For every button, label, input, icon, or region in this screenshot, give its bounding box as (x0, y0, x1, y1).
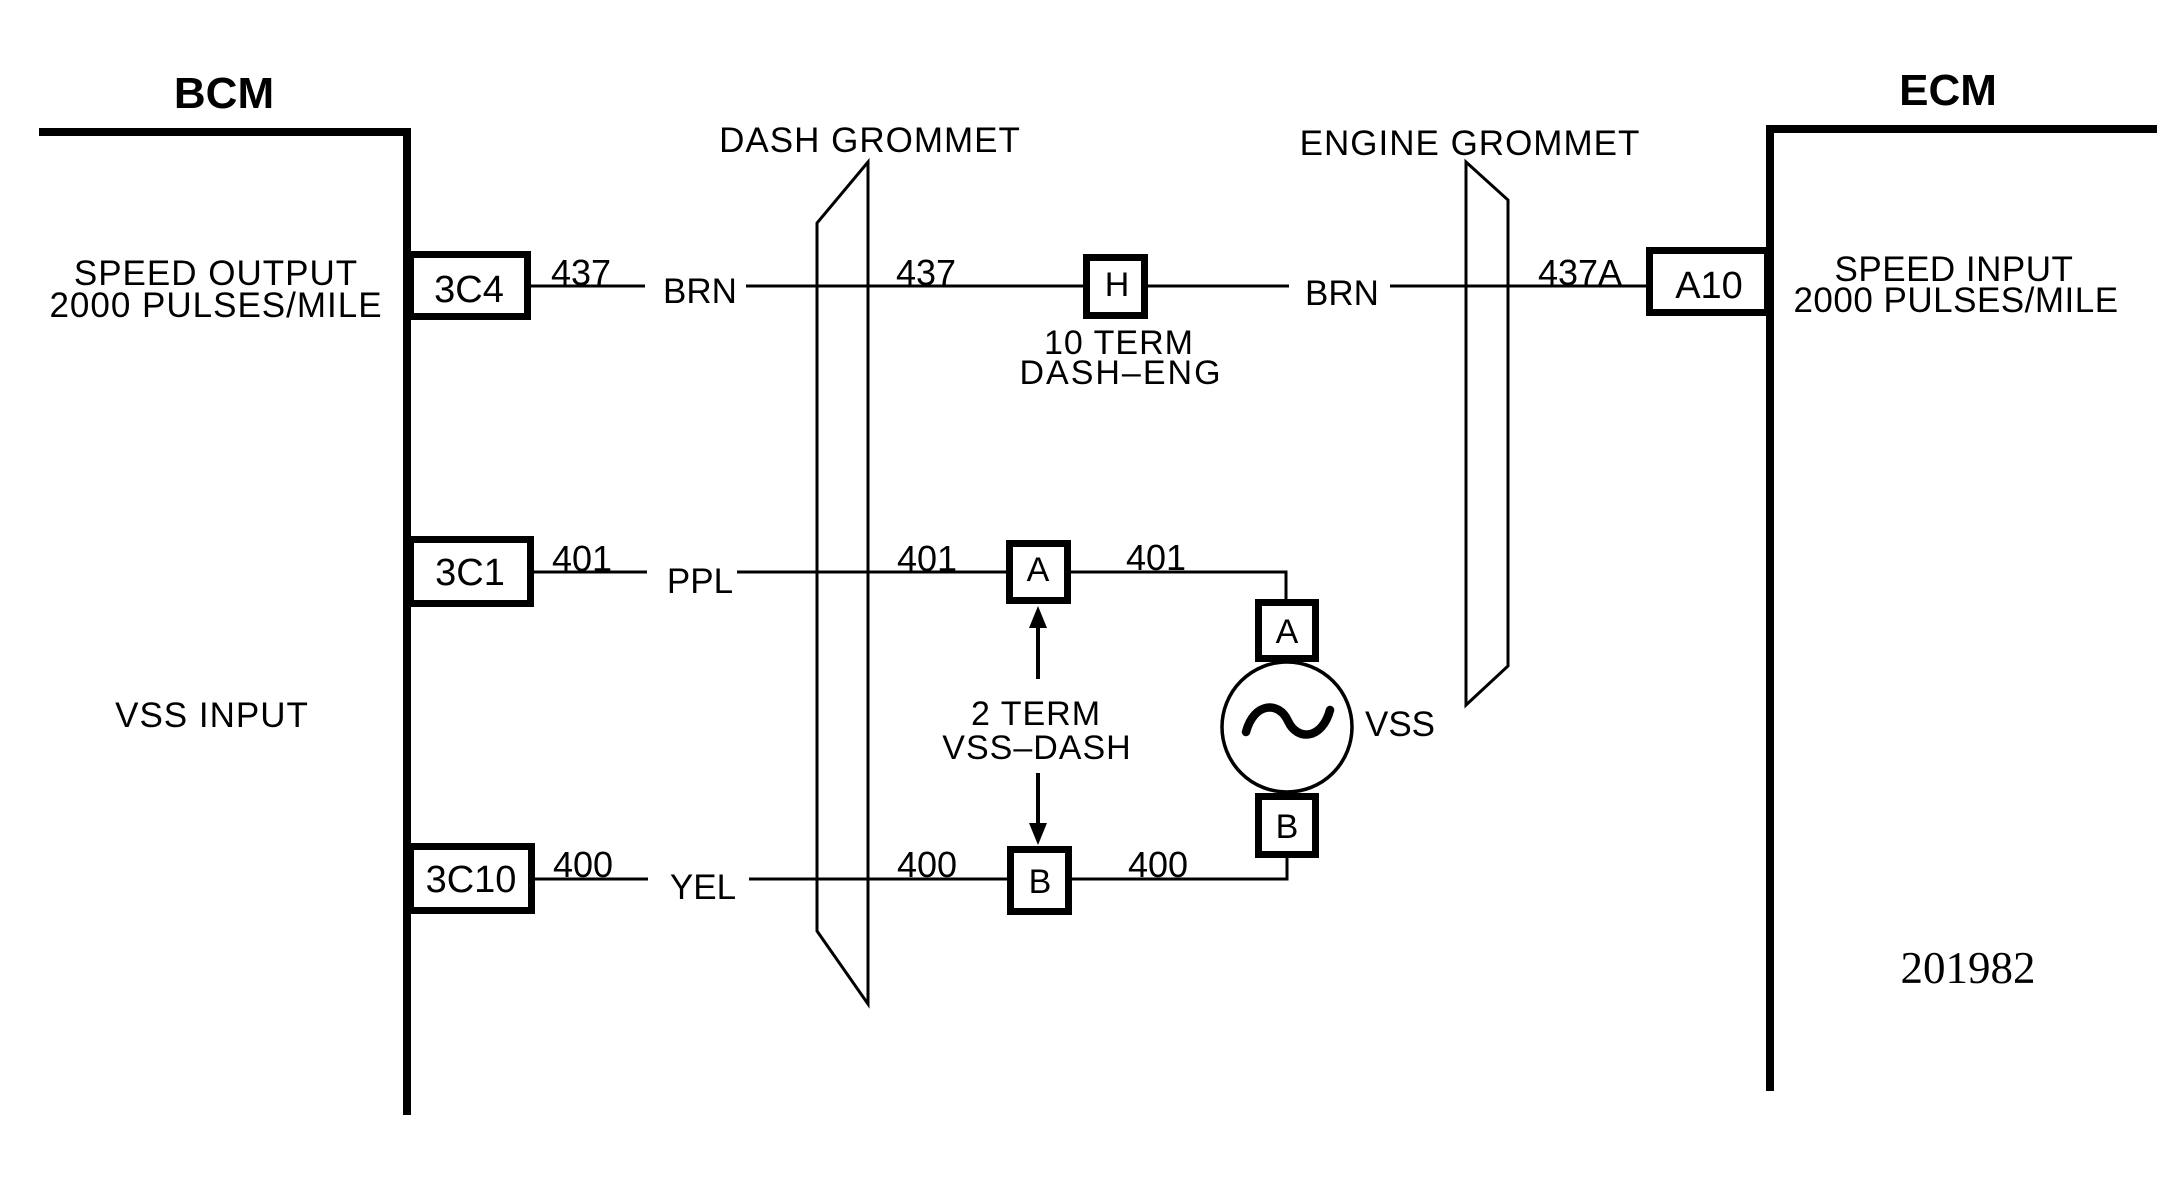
svg-text:401: 401 (897, 538, 957, 579)
svg-text:401: 401 (552, 538, 612, 579)
dash grommet (817, 162, 868, 1004)
svg-text:400: 400 (1128, 844, 1188, 885)
svg-text:3C4: 3C4 (434, 269, 504, 311)
svg-text:437: 437 (896, 252, 956, 293)
wire 401 PPL: BCM 3C1 to VSS terminal A (534, 571, 647, 574)
svg-text:PPL: PPL (667, 562, 733, 601)
svg-text:400: 400 (553, 844, 613, 885)
connector A10 (1650, 251, 1768, 313)
VSS terminal B (1259, 797, 1316, 855)
wire 400 YEL: BCM 3C10 to VSS terminal B (535, 878, 648, 881)
svg-text:201982: 201982 (1901, 943, 2036, 993)
splice H (10 term dash-eng connector) (1087, 258, 1145, 316)
svg-text:ENGINE GROMMET: ENGINE GROMMET (1300, 124, 1641, 163)
svg-text:400: 400 (897, 844, 957, 885)
arrow down to pin B (1036, 773, 1040, 824)
engine grommet (1466, 162, 1508, 705)
svg-text:DASH–ENG: DASH–ENG (1019, 354, 1222, 392)
svg-text:YEL: YEL (670, 868, 736, 907)
svg-text:A: A (1276, 613, 1299, 651)
wire 437 BRN: BCM 3C4 to splice H (531, 285, 645, 288)
svg-text:ECM: ECM (1899, 66, 1997, 115)
svg-text:3C1: 3C1 (435, 552, 505, 594)
svg-text:DASH GROMMET: DASH GROMMET (719, 121, 1021, 160)
svg-text:3C10: 3C10 (426, 859, 517, 901)
svg-text:VSS INPUT: VSS INPUT (115, 696, 309, 735)
connector pin B (2 term vss-dash) (1011, 850, 1069, 912)
VSS terminal A (1259, 603, 1316, 659)
ECM module wall (1766, 125, 2157, 1091)
svg-text:2000 PULSES/MILE: 2000 PULSES/MILE (49, 286, 382, 325)
svg-text:H: H (1105, 266, 1130, 304)
svg-text:401: 401 (1126, 537, 1186, 578)
wire 437A BRN: splice H to ECM A10 (1390, 285, 1646, 288)
VSS sine symbol (1246, 707, 1330, 734)
connector 3C4 (411, 255, 528, 317)
svg-text:BCM: BCM (174, 69, 274, 118)
svg-text:2 TERM: 2 TERM (971, 695, 1101, 733)
svg-text:B: B (1276, 808, 1299, 846)
BCM module wall (39, 128, 411, 1115)
VSS sensor circle (1222, 662, 1352, 792)
connector pin A (2 term vss-dash) (1010, 544, 1068, 601)
connector 3C10 (411, 847, 532, 911)
svg-text:437: 437 (551, 252, 611, 293)
svg-text:BRN: BRN (663, 272, 737, 311)
svg-text:VSS–DASH: VSS–DASH (942, 729, 1131, 767)
svg-text:VSS: VSS (1365, 705, 1435, 744)
svg-text:A10: A10 (1675, 265, 1743, 307)
connector 3C1 (411, 540, 531, 604)
svg-text:2000 PULSES/MILE: 2000 PULSES/MILE (1793, 281, 2118, 320)
svg-text:437A: 437A (1538, 252, 1622, 293)
svg-text:A: A (1027, 551, 1050, 589)
arrow up to pin A (1036, 622, 1040, 679)
svg-text:BRN: BRN (1305, 274, 1379, 313)
svg-text:B: B (1029, 863, 1052, 901)
